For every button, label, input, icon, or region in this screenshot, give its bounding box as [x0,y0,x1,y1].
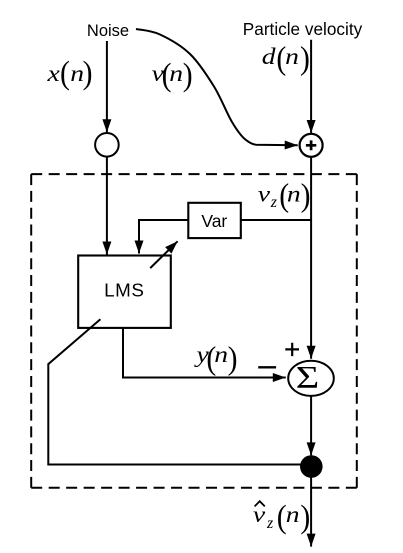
dashed system boundary box [31,174,357,488]
svg-text:v: v [258,181,271,206]
svg-text:n: n [287,181,301,206]
wire: d(n) down-arrow into adder [310,40,312,133]
wire: LMS output y(n) to sigma arrow [123,328,286,378]
label d(n) [262,40,310,77]
svg-text:v: v [253,502,266,527]
svg-text:n: n [285,44,299,69]
label y(n) [193,340,237,377]
label v(n) [152,56,193,93]
svg-text:Noise: Noise [87,22,129,40]
block Var [188,203,241,238]
svg-text:): ) [300,498,310,535]
svg-text:d: d [262,44,276,69]
node: output junction dot [300,455,323,478]
feedback wire: LMS to output dot [48,319,311,464]
node: adder circle [300,134,323,157]
svg-text:): ) [183,56,193,93]
wire: Noise down-arrow to open circle [106,41,108,132]
label minus at sigma [258,366,276,368]
svg-text:): ) [83,54,93,91]
label plus inside adder [306,140,316,150]
svg-text:): ) [301,177,311,214]
wire: noise coupling curve into adder [136,29,298,145]
svg-text:Σ: Σ [296,360,319,395]
block LMS [78,256,171,328]
svg-text:n: n [169,61,183,86]
wire: vz node to Var [241,219,311,221]
label x(n) [46,54,92,91]
svg-text:LMS: LMS [104,280,144,301]
svg-text:Particle velocity: Particle velocity [243,19,363,39]
wire: adder down to sigma arrow [310,158,312,359]
wire: output down-arrow [310,477,312,547]
svg-text:): ) [300,40,310,77]
svg-text:z: z [266,515,274,532]
adaptation arrow through LMS corner [150,241,177,268]
svg-text:z: z [270,194,278,211]
label plus at sigma [285,343,299,356]
wire: Var feedback into LMS arrow [139,220,188,254]
svg-text:n: n [286,502,300,527]
summer sigma ellipse [288,361,334,396]
svg-text:n: n [214,342,228,367]
node: open mixing circle [95,133,119,157]
svg-text:): ) [228,340,238,377]
wire: sigma down to output node arrow [310,396,312,456]
svg-text:(: ( [60,54,70,91]
svg-text:x: x [46,61,60,86]
svg-text:Var: Var [201,211,227,231]
label v-hat_z(n) [253,498,310,535]
label v_z(n) [258,177,311,214]
wire: open circle down to LMS arrow [106,157,108,255]
